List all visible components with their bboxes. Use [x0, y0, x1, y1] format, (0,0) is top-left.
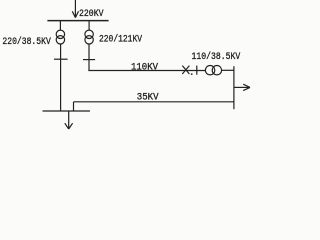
breaker tick on T2 secondary — [83, 59, 95, 61]
breaker tick on T1 secondary — [54, 58, 68, 60]
svg-text:110KV: 110KV — [131, 61, 159, 73]
wire: incoming 220KV feeder (down arrow into bus) — [72, 0, 78, 18]
svg-text:220/121KV: 220/121KV — [99, 33, 143, 45]
wire: T2 secondary down to 110KV line — [88, 44, 90, 71]
wire: 35KV line — [74, 101, 235, 103]
wire: T1 secondary down to 35KV bar — [60, 44, 62, 111]
svg-text:220/38.5KV: 220/38.5KV — [2, 36, 51, 48]
svg-text:35KV: 35KV — [137, 91, 159, 103]
node: 35KV busbar (bottom left) — [43, 110, 91, 112]
transformer T3 110/38.5KV (two-winding, horizontal) — [205, 66, 221, 75]
wire: 110KV line — [88, 70, 205, 72]
transformer T1 220/38.5KV (two-winding) — [56, 30, 64, 44]
node: 220KV busbar — [47, 20, 108, 22]
svg-text:220KV: 220KV — [79, 8, 104, 20]
wire: 35KV line stub down to bar — [73, 102, 75, 111]
dot mark after breaker — [191, 73, 193, 75]
breaker X on 110KV line — [182, 66, 189, 74]
wire: outgoing load feeder arrow (down) — [65, 111, 73, 129]
wire: outgoing feeder arrow (right) — [234, 84, 250, 90]
svg-text:110/38.5KV: 110/38.5KV — [192, 51, 241, 63]
wire: right riser down to 35KV line — [233, 66, 235, 109]
wire: T3 to right riser — [222, 69, 235, 71]
wire: bus to transformer T2 — [88, 21, 90, 31]
isolator tick on 110KV line — [196, 66, 198, 75]
background paper — [0, 0, 254, 132]
transformer T2 220/121KV (two-winding) — [85, 30, 93, 44]
wire: bus to transformer T1 — [59, 21, 61, 31]
